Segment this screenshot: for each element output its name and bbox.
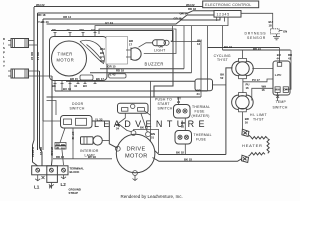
svg-text:RD 41: RD 41 xyxy=(253,47,261,51)
svg-text:P: P xyxy=(3,51,5,55)
svg-text:BK 17: BK 17 xyxy=(96,77,104,81)
svg-text:GY 42: GY 42 xyxy=(71,132,75,140)
svg-text:D: D xyxy=(3,37,5,41)
svg-text:PUSH TO: PUSH TO xyxy=(155,97,172,101)
svg-text:OR 14: OR 14 xyxy=(36,52,40,61)
svg-text:YL 33: YL 33 xyxy=(95,117,103,121)
svg-text:SWITCH: SWITCH xyxy=(70,107,85,111)
svg-text:BK 51: BK 51 xyxy=(140,126,148,130)
svg-text:L: L xyxy=(3,55,5,59)
svg-text:WH 22: WH 22 xyxy=(50,147,54,156)
svg-text:BLOCK: BLOCK xyxy=(70,170,80,174)
svg-text:13: 13 xyxy=(197,42,201,46)
svg-text:Y: Y xyxy=(3,64,5,68)
svg-text:BU 44: BU 44 xyxy=(224,45,232,49)
svg-text:L2: L2 xyxy=(61,182,67,187)
svg-text:RD 18: RD 18 xyxy=(56,155,64,159)
svg-text:L1: L1 xyxy=(34,185,40,190)
svg-text:FUSE: FUSE xyxy=(195,109,206,113)
svg-text:44: 44 xyxy=(277,57,281,61)
svg-text:Rendered by LeadVenture, Inc.: Rendered by LeadVenture, Inc. xyxy=(121,194,183,199)
svg-text:LEADVENTURE: LEADVENTURE xyxy=(94,119,209,129)
svg-text:GR 15: GR 15 xyxy=(108,65,117,69)
svg-text:BR 15: BR 15 xyxy=(70,77,78,81)
svg-text:BV 18: BV 18 xyxy=(88,155,96,159)
svg-text:BK: BK xyxy=(52,84,56,88)
svg-text:OR 14: OR 14 xyxy=(63,15,72,19)
svg-text:WH: WH xyxy=(275,87,280,91)
svg-text:12345: 12345 xyxy=(217,13,230,17)
svg-text:MOTOR: MOTOR xyxy=(125,153,148,159)
svg-text:BK 53: BK 53 xyxy=(184,158,192,162)
svg-text:INTERIOR: INTERIOR xyxy=(80,149,99,153)
svg-text:HI- LIMIT: HI- LIMIT xyxy=(250,113,267,117)
svg-text:DRYNESS: DRYNESS xyxy=(245,32,267,36)
svg-text:OR: OR xyxy=(100,59,104,63)
svg-text:FUSE: FUSE xyxy=(196,137,207,141)
svg-text:HEATER: HEATER xyxy=(242,143,263,148)
svg-text:SWITCH: SWITCH xyxy=(158,107,173,111)
svg-text:34: 34 xyxy=(197,92,201,96)
svg-text:YL 43: YL 43 xyxy=(108,73,116,77)
svg-text:DOOR: DOOR xyxy=(72,102,84,106)
svg-text:THERMAL: THERMAL xyxy=(194,133,212,137)
svg-text:GN: GN xyxy=(283,30,287,34)
svg-text:TIMER: TIMER xyxy=(58,51,73,56)
svg-text:18: 18 xyxy=(269,24,273,28)
svg-text:BU: BU xyxy=(61,147,65,151)
svg-text:41: 41 xyxy=(288,57,292,61)
svg-text:RD 18: RD 18 xyxy=(38,13,46,17)
svg-text:TH'ST: TH'ST xyxy=(253,118,264,122)
svg-text:BK 52: BK 52 xyxy=(176,150,184,154)
svg-text:GY 24: GY 24 xyxy=(105,21,113,25)
svg-text:44: 44 xyxy=(74,84,78,88)
svg-text:Y-BK43: Y-BK43 xyxy=(31,147,35,157)
svg-text:BU: BU xyxy=(83,84,87,88)
svg-text:52: 52 xyxy=(220,76,224,80)
svg-text:GR 15: GR 15 xyxy=(174,16,183,20)
svg-text:START: START xyxy=(158,102,170,106)
svg-text:OR 14: OR 14 xyxy=(180,11,189,15)
svg-text:Y-BK 43: Y-BK 43 xyxy=(38,20,49,24)
svg-text:S: S xyxy=(3,46,5,50)
svg-text:DK: DK xyxy=(284,87,288,91)
svg-text:LIGHT: LIGHT xyxy=(154,49,166,53)
svg-text:STRAP: STRAP xyxy=(69,191,79,195)
svg-text:51: 51 xyxy=(151,135,155,139)
svg-text:16: 16 xyxy=(262,88,266,92)
svg-text:(HEATER): (HEATER) xyxy=(192,114,210,118)
svg-text:17: 17 xyxy=(129,42,133,46)
svg-text:SENSOR: SENSOR xyxy=(247,36,266,40)
svg-text:BK 21: BK 21 xyxy=(39,147,43,155)
svg-text:16: 16 xyxy=(245,121,249,125)
svg-text:MOTOR: MOTOR xyxy=(57,57,75,62)
svg-text:WH 22: WH 22 xyxy=(36,3,45,7)
svg-text:RD 18: RD 18 xyxy=(188,7,196,11)
svg-text:RD 18: RD 18 xyxy=(30,52,34,60)
svg-text:35: 35 xyxy=(181,125,185,129)
svg-text:ELECTRONIC CONTROL: ELECTRONIC CONTROL xyxy=(205,3,251,7)
svg-text:L-PU: L-PU xyxy=(275,73,282,77)
svg-text:BUZZER: BUZZER xyxy=(145,62,164,67)
svg-text:BU 44: BU 44 xyxy=(63,87,71,91)
svg-text:I: I xyxy=(3,42,4,46)
svg-text:A: A xyxy=(3,60,5,64)
svg-text:THERMAL: THERMAL xyxy=(192,105,210,109)
svg-text:16: 16 xyxy=(246,86,250,90)
svg-text:SWITCH: SWITCH xyxy=(273,105,288,109)
svg-text:RD 18: RD 18 xyxy=(116,68,124,72)
svg-text:45: 45 xyxy=(56,146,60,150)
svg-text:TH'ST: TH'ST xyxy=(217,58,228,62)
svg-text:DRIVE: DRIVE xyxy=(127,147,146,153)
svg-text:24: 24 xyxy=(116,127,120,131)
